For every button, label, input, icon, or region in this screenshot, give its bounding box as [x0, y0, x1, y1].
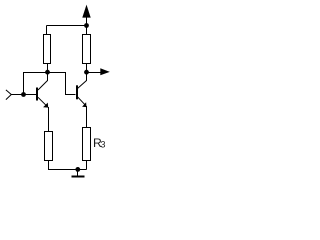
transistor Q2 [77, 73, 87, 108]
wire Q2 emitter lead [86, 106, 88, 128]
label R3 [93, 136, 106, 150]
node VCC junction dot [84, 23, 89, 28]
node B junction dot [21, 92, 26, 97]
resistor R_E1 (unlabeled) [45, 132, 53, 161]
resistor R1 [44, 35, 51, 64]
wire input to Q1 base [11, 94, 36, 96]
wire top rail [47, 25, 87, 27]
node A junction dot [45, 70, 50, 75]
wire node A to Q2 base [48, 73, 76, 95]
wire R3 bottom lead [86, 161, 88, 170]
node C junction dot [84, 70, 89, 75]
wire R2 top lead [86, 26, 88, 35]
svg-text:3: 3 [100, 140, 105, 150]
wire R1 top lead [46, 26, 48, 35]
output port arrow [87, 68, 110, 75]
wire R2 bottom lead [86, 64, 88, 73]
wire node A to feedback corner [24, 73, 48, 95]
node ground junction dot [75, 167, 80, 172]
ground [72, 170, 85, 177]
power supply arrow VCC [82, 5, 90, 26]
resistor R3 [83, 128, 91, 161]
resistor R2 [83, 35, 91, 64]
wire R1 bottom lead [47, 64, 49, 73]
wire Q1 emitter lead [48, 107, 50, 132]
transistor Q1 [37, 73, 48, 108]
wire R_E1 bottom lead [49, 161, 87, 170]
input port [6, 90, 11, 100]
